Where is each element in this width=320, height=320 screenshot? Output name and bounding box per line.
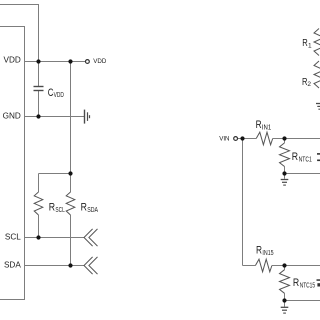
svg-text:SCL: SCL <box>55 207 64 214</box>
svg-text:R: R <box>292 151 298 163</box>
svg-text:1: 1 <box>308 42 312 49</box>
svg-text:GND: GND <box>3 112 21 121</box>
svg-text:R: R <box>49 202 55 214</box>
svg-text:NTC15: NTC15 <box>300 283 315 290</box>
svg-text:R: R <box>293 277 299 289</box>
svg-text:VDD: VDD <box>93 58 107 65</box>
svg-text:SCL: SCL <box>5 232 21 241</box>
svg-text:R: R <box>81 202 87 214</box>
svg-text:SDA: SDA <box>87 207 98 214</box>
svg-text:VDD: VDD <box>4 55 21 64</box>
svg-text:R: R <box>256 245 262 257</box>
svg-text:SDA: SDA <box>4 261 21 270</box>
svg-text:IN15: IN15 <box>262 250 273 257</box>
svg-text:VIN: VIN <box>219 136 229 143</box>
svg-text:R: R <box>256 119 262 131</box>
svg-text:R: R <box>302 38 308 49</box>
svg-text:IN1: IN1 <box>262 125 271 132</box>
svg-text:VDD: VDD <box>54 92 64 99</box>
svg-text:2: 2 <box>307 81 311 88</box>
svg-text:NTC1: NTC1 <box>299 156 312 163</box>
